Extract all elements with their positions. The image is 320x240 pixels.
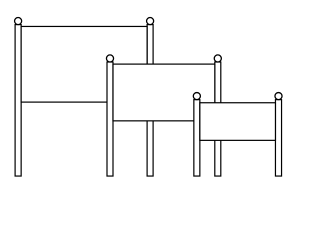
middle sign right finial ball (214, 55, 221, 62)
small sign right finial ball (275, 93, 282, 100)
middle sign panel (113, 64, 215, 121)
small sign left finial ball (193, 93, 200, 100)
large sign left post (15, 25, 21, 176)
middle sign left post (107, 62, 113, 176)
large sign right finial ball (147, 18, 154, 25)
middle sign left finial ball (106, 55, 113, 62)
large sign panel (21, 26, 147, 102)
small sign panel (200, 103, 276, 141)
large sign right post (147, 25, 153, 176)
large sign left finial ball (15, 18, 22, 25)
middle sign right post (215, 62, 221, 176)
small sign right post (275, 100, 281, 176)
small sign left post (194, 100, 200, 176)
